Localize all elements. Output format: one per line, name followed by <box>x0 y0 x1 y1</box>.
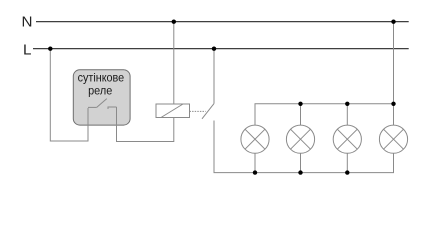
svg-text:N: N <box>22 13 33 30</box>
coil diagonal mark <box>161 104 183 118</box>
mechanical linkage (dashed) <box>190 110 206 112</box>
wire L drop to main contact <box>213 49 215 104</box>
contactor coil K1 <box>156 104 190 118</box>
junction dot L to relay box <box>48 47 52 51</box>
svg-text:сутінкове: сутінкове <box>78 71 125 84</box>
junction dot lamp4 top <box>391 102 395 106</box>
main contact blade <box>202 104 214 119</box>
wire lamp top bus <box>255 104 394 125</box>
wire L drop to relay box input (left U) <box>50 49 88 141</box>
junction dot lamp3 top <box>345 102 349 106</box>
junction dot lamp3 bottom <box>345 170 349 174</box>
wire L bus line <box>33 48 409 50</box>
lamp E1 <box>241 125 269 173</box>
svg-text:L: L <box>23 42 31 59</box>
junction dot N to coil <box>172 20 176 24</box>
wire contact bottom terminal to lamp bottom bus <box>214 121 394 173</box>
wire relay box output to contactor coil <box>117 107 174 142</box>
lamp E4 <box>379 104 407 154</box>
lamp E2 <box>286 104 314 173</box>
junction dot N to lamp bus <box>391 20 395 24</box>
twilight relay box <box>73 70 130 125</box>
internal switch contact in relay box <box>88 99 117 109</box>
wire N drop to coil top <box>173 22 175 104</box>
junction dot lamp2 top <box>298 102 302 106</box>
svg-text:реле: реле <box>88 85 112 98</box>
junction dot lamp2 bottom <box>298 170 302 174</box>
wire N drop to lamp top bus <box>393 22 395 104</box>
lamp E3 <box>333 104 361 173</box>
wire N bus line <box>36 21 409 23</box>
junction dot lamp1 bottom <box>253 170 257 174</box>
junction dot L to main contact <box>212 47 216 51</box>
